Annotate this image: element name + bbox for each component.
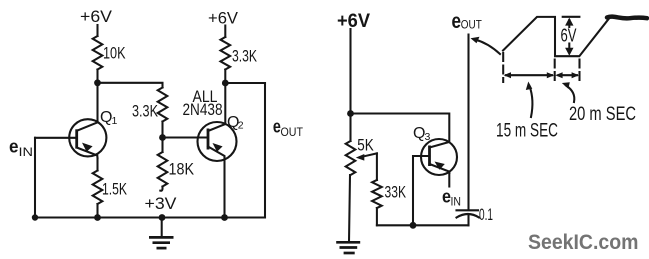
- extension line left (ramp start): [502, 53, 504, 82]
- node rail left end junction: [32, 214, 38, 220]
- leader arrow 15 mSEC: [526, 82, 533, 118]
- svg-text:+3V: +3V: [145, 194, 178, 213]
- dimension 20 mSEC arrow: [555, 72, 579, 78]
- svg-text:5K: 5K: [357, 136, 374, 155]
- svg-text:IN: IN: [451, 197, 462, 209]
- extension line right (ramp2 start): [578, 60, 580, 83]
- svg-text:+6V: +6V: [80, 7, 113, 26]
- svg-text:15 m SEC: 15 m SEC: [496, 121, 558, 142]
- svg-text:IN: IN: [19, 145, 34, 159]
- wire 3.3K to 18K (through Q2 base node): [161, 122, 163, 153]
- wire e_IN branch down to ground rail: [34, 138, 36, 218]
- svg-text:3.3K: 3.3K: [232, 47, 257, 66]
- resistor 3.3K (Q2 collector): [221, 37, 231, 70]
- potentiometer 5K: [346, 141, 356, 175]
- leader arrow e_OUT to column: [471, 37, 501, 54]
- svg-text:6V: 6V: [561, 26, 577, 46]
- wire e_OUT column: [264, 83, 266, 218]
- transistor Q2: [198, 122, 237, 161]
- node Q2 base junction: [159, 134, 166, 141]
- node 1.5K rail junction: [94, 214, 101, 221]
- wire 10K bottom to Q1 collector: [96, 70, 98, 123]
- node ground rail junction: [159, 214, 166, 221]
- resistor 18K (divider lower): [158, 152, 168, 187]
- wire 33K bottom to rail: [376, 208, 378, 225]
- wire +6V down to 5K pot: [349, 29, 351, 141]
- extension line middle (drop): [554, 60, 556, 83]
- ground (left circuit): [149, 218, 174, 249]
- wire collector junction to e_OUT column: [225, 82, 265, 84]
- wire Q1 emitter to 1.5K: [96, 158, 98, 171]
- wire junction to Q3 collector: [351, 114, 450, 143]
- wire e_IN to Q1 base: [35, 137, 77, 139]
- waveform e_OUT sawtooth: [503, 17, 609, 56]
- resistor 1.5K (Q1 emitter): [93, 171, 103, 205]
- transistor Q3: [421, 139, 457, 175]
- svg-text:OUT: OUT: [461, 20, 482, 32]
- resistor 10K: [93, 36, 103, 70]
- dimension 6V top tick: [563, 16, 580, 18]
- node Q3 base rail junction: [410, 222, 417, 229]
- resistor 33K: [372, 180, 382, 208]
- svg-text:3: 3: [425, 131, 431, 143]
- svg-text:33K: 33K: [385, 183, 407, 202]
- wire Q3 emitter to e_IN terminal: [448, 173, 450, 187]
- svg-text:e: e: [9, 137, 19, 157]
- wire 5K bottom to ground: [349, 175, 350, 242]
- wire +6V to 10K top: [96, 25, 98, 36]
- capacitor C 0.1: [457, 210, 480, 225]
- node junction 10K / divider: [94, 79, 101, 86]
- waveform continuation stroke: [607, 17, 647, 19]
- leader arrow 20 mSEC: [562, 82, 575, 102]
- wire base junction to Q2 base: [163, 136, 209, 138]
- svg-text:20 m SEC: 20 m SEC: [569, 104, 636, 125]
- node Q2 collector junction: [222, 80, 229, 87]
- svg-text:+6V: +6V: [208, 9, 239, 28]
- resistor 3.3K (divider upper): [158, 88, 168, 122]
- node Q2 emitter rail junction: [221, 214, 228, 221]
- svg-text:SeekIC.com: SeekIC.com: [528, 231, 639, 254]
- transistor Q1: [69, 119, 106, 158]
- node collector feed junction: [347, 110, 354, 117]
- ground (right circuit): [336, 242, 360, 253]
- svg-text:2: 2: [238, 119, 244, 131]
- wire bottom rail (right circuit): [377, 224, 469, 226]
- svg-text:OUT: OUT: [281, 125, 304, 139]
- wire e_OUT column to coupling capacitor: [467, 35, 469, 210]
- wire ground rail (left circuit): [35, 216, 265, 218]
- wire wiper to 33K top: [376, 153, 378, 180]
- wire Q2 emitter to ground rail: [223, 159, 225, 218]
- svg-text:18K: 18K: [169, 160, 195, 179]
- svg-text:1: 1: [112, 115, 118, 127]
- svg-text:0.1: 0.1: [479, 205, 493, 224]
- wire 3.3K to Q2 collector: [224, 70, 226, 125]
- svg-text:2N438: 2N438: [183, 100, 223, 119]
- svg-text:10K: 10K: [103, 44, 126, 63]
- svg-text:+6V: +6V: [337, 10, 370, 32]
- svg-text:e: e: [452, 10, 462, 33]
- dimension 15 mSEC arrow: [504, 72, 555, 78]
- wire rail junction up to Q3 base: [413, 156, 430, 225]
- wire 1.5K to ground rail: [96, 204, 98, 218]
- wire +6V to 3.3K collector resistor: [224, 26, 226, 38]
- potentiometer 5K wiper arrow: [356, 153, 377, 160]
- svg-text:1.5K: 1.5K: [102, 180, 127, 199]
- wire 18K to +3V terminal: [160, 187, 162, 191]
- svg-text:3.3K: 3.3K: [132, 102, 158, 121]
- wire junction to 3.3K divider top: [98, 83, 163, 88]
- dimension 6V arrow: [565, 18, 573, 56]
